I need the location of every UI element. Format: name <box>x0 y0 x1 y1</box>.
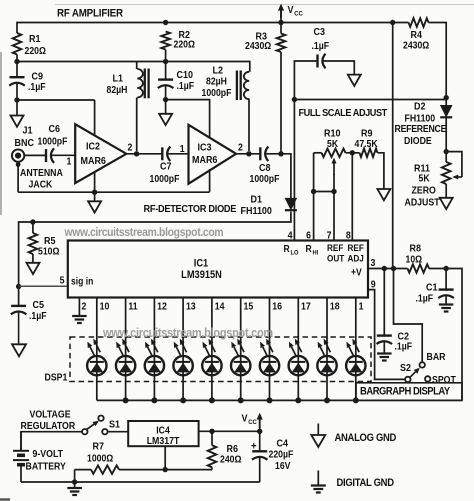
wire +V to BAR contact <box>394 269 423 363</box>
svg-text:R1: R1 <box>29 33 41 45</box>
resistor R9 <box>360 149 378 157</box>
svg-text:47.5K: 47.5K <box>355 138 378 149</box>
svg-text:J1: J1 <box>23 125 34 137</box>
svg-text:82µH: 82µH <box>206 76 227 87</box>
svg-text:L2: L2 <box>213 65 223 77</box>
svg-text:C4: C4 <box>277 438 289 450</box>
svg-text:L1: L1 <box>113 73 124 85</box>
svg-text:BNC: BNC <box>15 137 34 149</box>
inductor L1 <box>136 62 138 70</box>
switch S1 <box>82 429 87 434</box>
ground digital (below C2) <box>377 352 392 354</box>
node wiper-pin6 <box>311 189 316 194</box>
svg-text:REFERENCE: REFERENCE <box>395 122 447 134</box>
svg-text:sig in: sig in <box>71 276 94 287</box>
battery B1 9-volt <box>20 432 22 451</box>
wire battery- line <box>21 481 260 483</box>
node gnd line <box>92 190 97 195</box>
svg-text:+V: +V <box>351 267 363 278</box>
node IC3out-L2 <box>246 151 251 156</box>
wire pin8 <box>351 153 353 241</box>
op-amp IC2 MAR6 <box>75 124 126 183</box>
svg-text:1000pF: 1000pF <box>250 173 280 184</box>
LED 8 of DSP1 <box>289 356 308 375</box>
wire C9 bottom <box>16 83 18 100</box>
svg-text:S2: S2 <box>400 362 411 374</box>
svg-text:16: 16 <box>272 300 282 312</box>
svg-text:.1µF: .1µF <box>177 80 195 91</box>
svg-text:R: R <box>306 243 313 254</box>
node pin4-C3 <box>292 97 297 102</box>
node bus-LED6 <box>238 397 244 403</box>
node adj-R7 <box>163 467 168 472</box>
svg-text:LM317T: LM317T <box>147 434 180 446</box>
wiper R11 link <box>446 152 462 177</box>
svg-text:6: 6 <box>306 229 311 241</box>
resistor R4 <box>409 18 429 27</box>
svg-text:15: 15 <box>244 300 254 312</box>
node C8-R3-D1 <box>278 151 283 156</box>
ground analog (below R5) <box>27 263 40 274</box>
resistor R8 <box>408 264 430 272</box>
node ref-D2 <box>444 95 449 100</box>
diode D2 FH1100 reference <box>441 106 452 117</box>
inductor L2 <box>244 72 249 99</box>
svg-text:IC1: IC1 <box>194 258 209 270</box>
svg-text:LO: LO <box>291 249 299 256</box>
wire pin 12 to LED3 <box>153 298 155 401</box>
svg-text:1: 1 <box>359 300 364 312</box>
capacitor C2 <box>383 269 385 336</box>
svg-text:17: 17 <box>301 300 311 312</box>
wire pin6 <box>313 153 315 241</box>
ground analog (after R9) <box>377 189 390 200</box>
node C9-gnd <box>14 97 19 102</box>
svg-text:C10: C10 <box>177 69 193 81</box>
svg-text:16V: 16V <box>275 460 291 471</box>
node rail-Vcc <box>278 20 283 25</box>
wire pin 15 to LED6 <box>240 298 242 401</box>
svg-text:+: + <box>251 441 257 453</box>
svg-text:2: 2 <box>238 141 243 153</box>
node wiper-pin7 <box>331 189 336 194</box>
svg-text:2430Ω: 2430Ω <box>403 40 430 51</box>
wire ground bus (jack/IC2/IC3 gnd) <box>18 162 210 192</box>
wire pin4 <box>293 100 295 241</box>
svg-text:ADJ: ADJ <box>348 253 364 264</box>
svg-text:1000pF: 1000pF <box>150 173 180 184</box>
box bargraph display <box>356 383 462 401</box>
wire IC3 out <box>236 153 260 155</box>
node +V-C2 <box>382 266 387 271</box>
svg-text:9-VOLT: 9-VOLT <box>33 447 64 459</box>
node bus-LED8 <box>295 397 301 403</box>
wire R10 wiper link <box>314 191 334 193</box>
legend analog gnd symbol <box>317 424 319 436</box>
svg-text:18: 18 <box>330 300 340 312</box>
IC U1 LM3915N box <box>68 241 368 298</box>
capacitor C7 <box>161 147 163 160</box>
pin 2 ground <box>78 298 80 316</box>
svg-text:220Ω: 220Ω <box>25 45 47 56</box>
wire ref line (pin4/C3 to D2) <box>294 99 446 101</box>
wire pin 13 to LED4 <box>182 298 184 401</box>
node R2-C10 <box>163 59 168 64</box>
connector J1 BNC <box>12 149 24 161</box>
ground analog (after C3) <box>348 75 361 86</box>
wire pin 16 to LED7 <box>269 298 271 401</box>
svg-text:www.circuitsstream.blogspot.co: www.circuitsstream.blogspot.com <box>102 326 273 340</box>
node sig-R5 <box>30 219 35 224</box>
node out-R6 <box>209 429 214 434</box>
potentiometer R11 zero adjust <box>442 162 451 184</box>
diode D1 FH1100 <box>285 198 296 209</box>
node R1-C9-L1 <box>14 59 19 64</box>
node out-C4-Vcc <box>257 429 262 434</box>
svg-text:C6: C6 <box>49 123 60 135</box>
wire IC4 out <box>199 430 260 432</box>
svg-text:RF-DETECTOR DIODE: RF-DETECTOR DIODE <box>144 203 237 215</box>
scan artifact top line <box>55 4 474 6</box>
legend digital gnd symbol <box>317 471 319 485</box>
op-amp IC3 MAR6 <box>189 125 237 184</box>
node bus-LED10 <box>353 397 359 403</box>
svg-text:R7: R7 <box>93 441 104 453</box>
svg-text:BAR: BAR <box>427 350 446 362</box>
svg-text:1: 1 <box>180 142 185 154</box>
bus LED anodes <box>97 399 462 401</box>
wire BNC to C6 <box>24 154 46 156</box>
potentiometer R10 <box>314 152 322 154</box>
svg-text:7: 7 <box>327 229 332 241</box>
svg-text:DSP1: DSP1 <box>45 371 68 383</box>
svg-text:2430Ω: 2430Ω <box>245 40 272 51</box>
svg-text:C8: C8 <box>259 162 271 174</box>
wire pin 17 to LED8 <box>297 298 299 401</box>
scan edge left <box>0 52 2 215</box>
wire pin 14 to LED5 <box>211 298 213 401</box>
node C10-gnd <box>163 97 168 102</box>
power Vcc (top) <box>280 10 282 21</box>
wire pin3 +V <box>368 269 462 401</box>
LED 2 of DSP1 <box>116 356 135 375</box>
wire IC2 out <box>126 153 162 155</box>
resistor R5 <box>32 222 34 233</box>
power Vcc (bottom) <box>259 420 261 431</box>
svg-text:12: 12 <box>157 300 167 312</box>
switch S2 <box>420 362 425 367</box>
svg-text:REGULATOR: REGULATOR <box>21 419 76 431</box>
node bus-LED3 <box>151 397 157 403</box>
node IC2out-L1 <box>134 151 139 156</box>
wire pin7 <box>333 192 335 241</box>
LED 9 of DSP1 <box>317 356 336 375</box>
svg-text:D1: D1 <box>251 194 263 206</box>
wire pin 10 to LED1 <box>96 298 98 401</box>
svg-text:LM3915N: LM3915N <box>181 269 222 281</box>
wire D1 to sig-in column <box>19 212 291 287</box>
ground analog (antenna line) <box>94 192 96 201</box>
svg-text:5K: 5K <box>327 138 338 149</box>
LED 6 of DSP1 <box>231 356 250 375</box>
capacitor C10 <box>165 62 167 80</box>
node rail-pin3 feed <box>390 20 395 25</box>
svg-text:C1: C1 <box>426 282 438 294</box>
svg-text:11: 11 <box>128 300 137 312</box>
svg-text:2: 2 <box>82 300 87 312</box>
node +V-vccdrop <box>391 266 396 271</box>
svg-text:MAR6: MAR6 <box>192 154 217 166</box>
svg-text:ANTENNA: ANTENNA <box>20 166 63 178</box>
node D2-R11 <box>444 149 449 154</box>
svg-text:220µF: 220µF <box>269 449 294 460</box>
svg-text:1: 1 <box>67 155 72 167</box>
svg-text:ZERO: ZERO <box>412 184 436 196</box>
svg-text:.1µF: .1µF <box>312 40 330 51</box>
wire S1 to IC4 <box>108 431 129 433</box>
wire pin9 to S2 <box>368 290 405 380</box>
svg-text:ANALOG GND: ANALOG GND <box>335 432 397 444</box>
svg-text:DIGITAL GND: DIGITAL GND <box>337 477 394 489</box>
LED 10 of DSP1 <box>346 356 365 375</box>
node sig-C5 <box>16 284 21 289</box>
svg-text:OUT: OUT <box>327 253 345 264</box>
svg-text:.1µF: .1µF <box>28 81 46 92</box>
LED 3 of DSP1 <box>145 356 164 375</box>
svg-text:1000pF: 1000pF <box>38 136 68 147</box>
resistor R3 <box>280 23 282 34</box>
capacitor C4 220uF <box>259 431 261 450</box>
svg-text:240Ω: 240Ω <box>220 454 242 465</box>
svg-text:.1µF: .1µF <box>29 310 47 321</box>
svg-text:3: 3 <box>371 256 376 268</box>
LED 7 of DSP1 <box>260 356 279 375</box>
svg-text:1000Ω: 1000Ω <box>87 453 114 464</box>
svg-text:5K: 5K <box>419 173 430 184</box>
resistor R6 <box>211 431 213 445</box>
svg-text:REF: REF <box>348 242 365 253</box>
wire battery+ to S1 <box>21 432 82 451</box>
svg-text:BARGRAPH DISPLAY: BARGRAPH DISPLAY <box>360 386 450 398</box>
ground analog (below C5) <box>12 344 26 356</box>
svg-text:FH1100: FH1100 <box>241 205 272 217</box>
svg-text:82µH: 82µH <box>107 84 128 95</box>
svg-text:.1µF: .1µF <box>416 293 434 304</box>
svg-text:FULL SCALE ADJUST: FULL SCALE ADJUST <box>299 107 388 119</box>
svg-text:S1: S1 <box>109 419 121 431</box>
svg-text:CC: CC <box>294 10 303 17</box>
capacitor C6 <box>45 149 47 162</box>
svg-text:DIODE: DIODE <box>404 134 432 146</box>
wire C9 gnd to IC2 gnd <box>17 100 95 192</box>
svg-text:C3: C3 <box>314 26 325 38</box>
svg-text:REF: REF <box>327 242 344 253</box>
svg-text:1000pF: 1000pF <box>202 87 232 98</box>
svg-text:5: 5 <box>60 274 65 286</box>
svg-text:510Ω: 510Ω <box>38 246 60 257</box>
box DSP1 (dashed) <box>70 337 371 382</box>
wiper R10 <box>333 164 335 176</box>
svg-text:V: V <box>288 4 295 16</box>
LED 5 of DSP1 <box>202 356 221 375</box>
svg-text:8: 8 <box>346 229 351 241</box>
wire C7 to IC3 pin1 <box>168 153 188 155</box>
svg-text:C5: C5 <box>33 299 45 311</box>
svg-text:V: V <box>242 413 249 425</box>
svg-text:13: 13 <box>186 300 196 312</box>
node rail-R2 <box>163 20 168 25</box>
wire IC4 adj <box>164 446 166 469</box>
svg-text:9: 9 <box>371 278 376 290</box>
capacitor C9 <box>10 76 25 78</box>
capacitor C8 <box>259 147 261 160</box>
svg-text:RF AMPLIFIER: RF AMPLIFIER <box>57 8 123 20</box>
svg-text:220Ω: 220Ω <box>174 39 196 50</box>
capacitor C5 <box>18 287 20 306</box>
svg-text:IC3: IC3 <box>198 142 212 154</box>
svg-text:R: R <box>284 243 291 254</box>
LED 1 of DSP1 <box>87 356 106 375</box>
svg-text:C7: C7 <box>160 161 171 173</box>
svg-text:14: 14 <box>215 300 225 312</box>
node bat-gnd <box>72 479 77 484</box>
ground analog (below R11) <box>440 198 453 209</box>
wire pin 11 to LED2 <box>125 298 127 401</box>
svg-text:BATTERY: BATTERY <box>26 460 67 472</box>
svg-text:ADJUST: ADJUST <box>405 196 440 208</box>
wire Vcc drop to +V <box>392 23 394 269</box>
resistor R2 <box>161 32 170 50</box>
wire pin 1 to LED10 <box>355 298 357 401</box>
node bus-LED4 <box>180 397 186 403</box>
resistor R7 <box>75 469 91 471</box>
svg-text:2: 2 <box>128 141 133 153</box>
node R8-C1 <box>443 266 448 271</box>
node bus-LED9 <box>324 397 330 403</box>
svg-text:VOLTAGE: VOLTAGE <box>30 408 71 420</box>
node bus-LED2 <box>123 397 129 403</box>
ground digital (below C1) <box>439 303 454 305</box>
wire C10 gnd to IC3 gnd <box>166 100 210 192</box>
LED 4 of DSP1 <box>173 356 192 375</box>
wire pin 18 to LED9 <box>326 298 328 401</box>
ground analog (below C10) <box>165 100 167 114</box>
capacitor C3 <box>294 61 317 100</box>
svg-text:MAR6: MAR6 <box>81 155 106 167</box>
svg-text:CC: CC <box>248 419 257 426</box>
svg-text:IC2: IC2 <box>86 141 100 153</box>
wire Vcc top rail <box>17 23 446 106</box>
node R9-pin8 <box>350 150 355 155</box>
node jack stem <box>16 162 21 167</box>
wire C6 to IC2 pin1 <box>52 154 75 156</box>
svg-text:JACK: JACK <box>29 178 53 190</box>
svg-text:www.circuitsstream.blogspot.co: www.circuitsstream.blogspot.com <box>64 226 224 239</box>
svg-text:HI: HI <box>313 249 319 256</box>
svg-text:10Ω: 10Ω <box>406 254 423 265</box>
wire sig in to pin5 <box>19 285 68 287</box>
resistor R1 <box>13 33 22 55</box>
svg-text:4: 4 <box>288 229 294 241</box>
ground digital (battery minus) <box>74 482 76 487</box>
IC U4 LM317T box <box>128 421 198 446</box>
svg-text:10: 10 <box>100 300 110 312</box>
node bus-LED7 <box>266 397 272 403</box>
node bus-LED5 <box>209 397 215 403</box>
wire C8 to D1 <box>266 154 291 199</box>
ground analog (below C9) <box>16 100 18 116</box>
svg-text:.1µF: .1µF <box>395 341 413 352</box>
svg-text:R8: R8 <box>410 243 422 255</box>
wire node-A to L1/R2/L2 <box>17 62 250 72</box>
wire R7 to gnd node <box>74 470 76 482</box>
capacitor C1 <box>445 269 447 290</box>
scan edge bottom-left <box>0 498 10 501</box>
